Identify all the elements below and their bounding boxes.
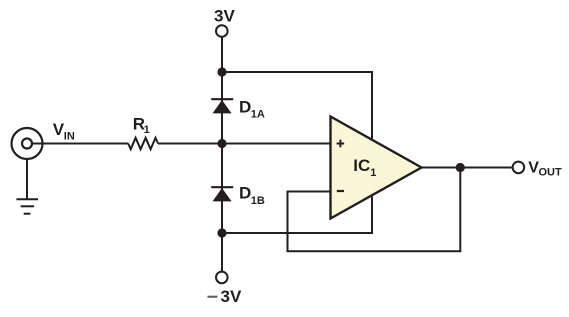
junction node A (217, 139, 226, 148)
pin + (noninverting input) (337, 140, 345, 148)
label VIN (53, 120, 75, 142)
svg-text:IN: IN (64, 131, 75, 143)
wire top rail (top junction to op-amp V+ pin) (222, 72, 372, 141)
junction top rail (217, 67, 226, 76)
svg-text:1: 1 (144, 124, 150, 136)
terminal VOUT (513, 162, 525, 174)
label R1 (133, 115, 150, 136)
op-amp IC1 (331, 117, 422, 219)
svg-text:3V: 3V (214, 7, 235, 26)
svg-text:D: D (239, 183, 251, 202)
label D1B (239, 183, 265, 207)
svg-text:OUT: OUT (539, 167, 563, 179)
junction output node (456, 163, 465, 172)
svg-text:IC: IC (353, 156, 370, 175)
svg-text:1: 1 (370, 167, 376, 179)
wire feedback (inverting input to output node) (288, 168, 461, 252)
junction bottom rail (217, 228, 226, 237)
wire clamp vertical (3V terminal through D1A, node A, D1B to -3V terminal) (221, 37, 223, 272)
wire bottom rail (bottom junction to op-amp V- pin) (222, 193, 372, 233)
pin - (inverting input) (337, 190, 344, 192)
terminal -3V (216, 272, 228, 284)
resistor R1 (128, 138, 158, 149)
label D1A (239, 97, 265, 120)
connector J1 (BNC input jack) (12, 128, 43, 159)
svg-text:D: D (239, 97, 251, 116)
wire input (J1 to R1) (32, 143, 128, 145)
label -3V (208, 287, 242, 306)
ground (16, 159, 38, 214)
label IC1 (353, 156, 376, 179)
svg-text:1A: 1A (251, 109, 265, 121)
wire R1 to op-amp noninverting input through node A (158, 143, 331, 145)
terminal 3V (216, 25, 228, 37)
wire output (422, 167, 513, 169)
svg-text:3V: 3V (221, 287, 242, 306)
svg-text:1B: 1B (251, 195, 265, 207)
label VOUT (528, 160, 562, 179)
diode D1B (211, 187, 233, 201)
diode D1A (211, 99, 233, 113)
